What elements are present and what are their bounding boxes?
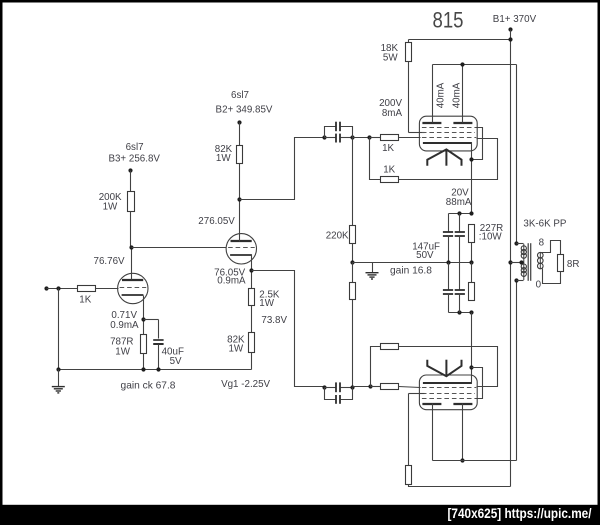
wire to 1K-a [370, 137, 381, 139]
svg-text:73.8V: 73.8V [261, 315, 287, 326]
wire V2 anode node to top coupling cap [240, 138, 324, 200]
tube U2 anode bar left [422, 403, 441, 405]
node lower cap left [322, 385, 326, 389]
capacitor 147uF-c bottom plate [443, 293, 453, 295]
svg-text:220K: 220K [326, 231, 349, 242]
capacitor C2a plate right [339, 382, 341, 392]
svg-text:8R: 8R [567, 259, 580, 270]
node top cap right [350, 135, 354, 139]
svg-text:1W: 1W [103, 202, 118, 213]
wire lower cap to 1K junction [353, 386, 371, 388]
svg-text:50V: 50V [416, 250, 434, 261]
wire 1K-b branch [370, 138, 381, 180]
transformer OPT secondary winding spine [539, 253, 541, 269]
wire mid ground stub [372, 263, 374, 273]
node top 1K junction [367, 135, 371, 139]
wire anode tie up to OPT bottom [516, 281, 518, 461]
node V1 cathode junction [141, 317, 145, 321]
wire B3+ to 200K [130, 171, 132, 192]
resistor 18K screen feed top [406, 43, 412, 62]
node B2+ terminal [237, 120, 241, 124]
wire to 1K-c [371, 386, 381, 388]
wire V1 anode to V2 grid [132, 247, 227, 249]
capacitor C2b plate right [339, 395, 341, 404]
resistor 1K grid stopper V1 [78, 286, 96, 292]
wire top cap to 1K junction [353, 137, 370, 139]
wire 787R bottom lead [143, 354, 145, 370]
node 787R rail junction [141, 367, 145, 371]
node mid rail cap junction [446, 260, 450, 264]
transformer OPT secondary winding [538, 252, 544, 268]
resistor 787R cathode V1 [141, 335, 147, 354]
wire U2 anode tie [433, 460, 517, 462]
wire 18K top stub [408, 40, 410, 43]
wire V2 cathode lead down [251, 255, 253, 289]
resistor 220K grid leak top [350, 226, 356, 244]
wire 2.5K to 82K [251, 306, 253, 333]
node lower 1K junction [368, 384, 372, 388]
svg-text:B2+ 349.85V: B2+ 349.85V [216, 104, 273, 115]
node OPT center tap junction on B1+ rail [508, 260, 512, 264]
wire cathode block top [449, 213, 472, 215]
node U1 cathode beam junction [469, 157, 473, 161]
wire block lower mid branch [459, 263, 461, 290]
tube U1 815 envelope [419, 116, 477, 151]
wire 1K-c to tube grid [399, 387, 421, 388]
svg-text:5V: 5V [170, 356, 182, 367]
node V2 anode junction [237, 197, 241, 201]
ground symbol mid [366, 273, 379, 279]
svg-text:276.05V: 276.05V [198, 216, 235, 227]
wire 8R bottom to secondary bottom [543, 269, 561, 284]
wire 82K down to ground rail [251, 353, 253, 370]
svg-text:88mA: 88mA [446, 197, 472, 208]
wire 1K-d branch [371, 347, 381, 387]
svg-text:1K: 1K [79, 295, 91, 306]
tube U1 screen grid dashed row [422, 132, 475, 134]
capacitor 147uF-d bottom plate [455, 293, 465, 295]
wire V1 anode lead up [131, 248, 133, 280]
svg-text:0: 0 [536, 279, 542, 290]
wire U1 cathode drop [471, 143, 473, 214]
node block top right [469, 211, 473, 215]
node top cap left [322, 135, 326, 139]
svg-text:40mA: 40mA [436, 82, 447, 108]
wire top cap left stub [325, 137, 336, 139]
wire U2 anode lead right [462, 404, 464, 461]
wire block left branch bottom [448, 236, 450, 263]
svg-text:gain 16.8: gain 16.8 [390, 266, 432, 277]
node input junction [56, 286, 60, 290]
wire block lower left branch [448, 263, 450, 290]
wire 1K-b long rail to right grid entry [399, 139, 498, 180]
node block top mid [457, 211, 461, 215]
node U1 anode tie junction [460, 62, 464, 66]
wire block bottom [449, 312, 472, 314]
tube U1 anode bar left [422, 122, 441, 124]
capacitor 40uF plate bottom [153, 343, 163, 345]
transformer OPT primary winding spine [523, 244, 525, 280]
wire U1 anode lead right [462, 65, 464, 123]
wire top cap node down to 220K [352, 138, 354, 226]
capacitor 147uF-a bottom plate [443, 235, 453, 237]
wire 200K to V1 anode node [130, 212, 132, 248]
resistor 220K grid leak bottom [350, 283, 356, 300]
svg-text:8: 8 [539, 237, 545, 248]
wire V2 cathode to lower coupling cap [252, 271, 325, 387]
svg-text:1K: 1K [383, 165, 395, 176]
wire 40uF bottom lead [158, 345, 160, 370]
node mid rail right [469, 260, 473, 264]
tube U2 anode bar right [453, 403, 472, 405]
svg-text:gain ck 67.8: gain ck 67.8 [121, 381, 176, 392]
wire input to grid network [47, 288, 78, 290]
svg-text:B3+ 256.8V: B3+ 256.8V [108, 153, 160, 164]
tube V1 grid dashed line [120, 287, 147, 289]
wire block mid branch top [459, 214, 461, 232]
node B1+ 18K junction [508, 37, 512, 41]
wire 1K-a to tube grid [399, 137, 421, 139]
capacitor C1b plate right [339, 122, 341, 132]
transformer OPT core [528, 243, 531, 281]
resistor 1K grid stopper c [381, 384, 399, 390]
wire B2+ to 82K plate [239, 123, 241, 146]
wire V2 anode lead up [239, 200, 241, 242]
wire secondary top to 8R [541, 241, 561, 255]
wire block left branch top [448, 214, 450, 232]
svg-text:1W: 1W [259, 298, 274, 309]
wire U2 beam row to cathode loop [472, 368, 483, 399]
wire ground rail [59, 369, 252, 371]
wire top cap parallel branch left [325, 127, 336, 138]
tube V1 anode plate bar [122, 279, 143, 281]
resistor 18K screen feed bottom [406, 466, 412, 485]
node block bottom mid [457, 310, 461, 314]
wire lower cap parallel branch left [325, 388, 336, 400]
node ground rail junction left [56, 367, 60, 371]
wire screen row down to 18K bottom [408, 394, 410, 466]
svg-text:0.9mA: 0.9mA [110, 320, 139, 331]
wire U1 beam row to cathode loop [472, 128, 483, 160]
wire top cap parallel branch right [341, 127, 353, 138]
resistor 82K cathode V2 [249, 333, 255, 353]
svg-text:6sl7: 6sl7 [126, 142, 144, 153]
wire U1 anode tie [433, 64, 517, 66]
svg-text:0.9mA: 0.9mA [217, 276, 246, 287]
wire cathode junction to bypass cap [144, 319, 159, 321]
node lower cap right [350, 385, 354, 389]
wire 1K to V1 grid [96, 288, 119, 290]
node 40uF rail junction [156, 367, 160, 371]
tube V2 cathode bar [230, 254, 252, 256]
wire B1+ rail down [510, 30, 512, 487]
wire block mid branch bottom [459, 236, 461, 263]
node input terminal [44, 286, 48, 290]
tube U1 beam former symbol [427, 149, 461, 165]
capacitor C1a plate right [339, 134, 341, 143]
tube U2 screen grid dashed row [422, 393, 475, 395]
node mid rail left [350, 260, 354, 264]
capacitor 147uF-b top plate [455, 231, 465, 233]
node OPT primary top [514, 241, 518, 245]
capacitor C2b plate left [335, 395, 337, 404]
wire U1 anode lead left [432, 65, 434, 123]
wire 82K to V2 anode node [239, 164, 241, 200]
wire mid rail [353, 262, 472, 264]
node U2 anode tie junction [460, 458, 464, 462]
tube U2 control grid dashed row [422, 387, 476, 389]
wire lower cathode rail [471, 313, 473, 383]
wire 220K bottom to lower cap node [352, 300, 354, 387]
wire block lower mid branch bottom [459, 294, 461, 313]
tube U2 815 envelope [419, 375, 477, 410]
svg-text:B1+ 370V: B1+ 370V [493, 14, 537, 25]
resistor 200K plate load V1 [128, 192, 135, 212]
wire 1K-d long rail to right grid entry [399, 347, 498, 387]
svg-text:Vg1 -2.25V: Vg1 -2.25V [221, 379, 270, 390]
resistor 82K plate load V2 [237, 146, 243, 164]
wire OPT primary top stub [517, 243, 524, 245]
tube V2 6sl7 triode envelope [226, 234, 256, 264]
wire bypass cap top lead [158, 320, 160, 339]
svg-text:[740x625] https://upic.me/: [740x625] https://upic.me/ [448, 506, 592, 522]
ground symbol main [52, 387, 65, 393]
node block bottom right [469, 310, 473, 314]
resistor 8R load [558, 255, 564, 272]
tube U1 beam plate dashed row [422, 127, 476, 129]
resistor 1K grid stopper a [381, 135, 399, 141]
node B3+ terminal [128, 168, 132, 172]
node U2 cathode beam junction [469, 365, 473, 369]
svg-text:6sl7: 6sl7 [231, 90, 249, 101]
tube U2 beam former symbol [427, 360, 461, 377]
tube U2 cathode bar [423, 382, 472, 384]
tube V1 6sl7 triode envelope [118, 273, 148, 303]
svg-text:1W: 1W [228, 344, 243, 355]
capacitor 147uF-c top plate [443, 289, 453, 291]
wire 220K bottom section [352, 263, 354, 283]
svg-text:815: 815 [433, 7, 464, 32]
wire 227R to mid rail [471, 243, 473, 263]
svg-text:40mA: 40mA [452, 82, 463, 108]
wire top cap right stub [341, 137, 353, 139]
wire U2 screen feed into tube [409, 393, 425, 395]
wire OPT primary bottom stub [517, 280, 524, 282]
node OPT center tap [519, 260, 523, 264]
resistor 1K grid stopper b [381, 177, 399, 183]
node V2 cathode junction [249, 268, 253, 272]
capacitor C1b plate left [335, 122, 337, 132]
wire ground stub [58, 370, 60, 387]
wire 18K top feed [409, 39, 511, 41]
svg-text:3K-6K PP: 3K-6K PP [523, 219, 566, 230]
wire lower cap left stub [325, 387, 336, 389]
wire anode tie down to OPT top [516, 65, 518, 244]
wire lower cap right stub [341, 387, 353, 389]
node OPT primary bottom [514, 278, 518, 282]
resistor 227R top [469, 225, 475, 243]
svg-text:5W: 5W [383, 53, 398, 64]
node B1+ terminal [508, 27, 512, 31]
tube V2 grid dashed line [228, 247, 255, 249]
transformer OPT primary winding lower [521, 264, 526, 276]
capacitor C1a plate left [335, 134, 337, 143]
svg-text:1K: 1K [382, 143, 394, 154]
resistor 1K grid stopper d [381, 344, 399, 350]
svg-text:8mA: 8mA [382, 108, 403, 119]
wire 18K down to screen row [408, 62, 410, 133]
tube V2 anode plate bar [231, 240, 252, 242]
wire 227R bottom to mid rail [471, 263, 473, 283]
transformer OPT primary winding upper [521, 246, 526, 258]
capacitor 147uF-d top plate [455, 289, 465, 291]
resistor 2.5K cathode V2 [249, 289, 255, 306]
resistor 227R bottom [469, 283, 475, 301]
svg-text:1W: 1W [115, 346, 130, 357]
capacitor C2a plate left [335, 382, 337, 392]
wire 220K to mid rail [352, 244, 354, 263]
wire U2 anode lead left [432, 404, 434, 461]
tube U1 cathode bar [423, 142, 472, 144]
tube U1 anode bar right [453, 122, 472, 124]
capacitor 40uF plate top [153, 339, 163, 341]
tube U2 beam plate dashed row [422, 398, 476, 400]
wire V1 cathode lead down [143, 296, 145, 335]
svg-text:1W: 1W [216, 153, 231, 164]
wire lower cap parallel branch right [341, 388, 353, 400]
node V1 anode / V2 grid junction [129, 245, 133, 249]
capacitor 147uF-b bottom plate [455, 235, 465, 237]
wire OPT center tap [511, 262, 522, 264]
tube V1 cathode bar [122, 294, 144, 296]
capacitor 147uF-a top plate [443, 231, 453, 233]
svg-text:76.76V: 76.76V [94, 256, 126, 267]
wire 18K bottom to B1+ rail [409, 485, 511, 487]
wire screen feed into tube [409, 132, 425, 134]
wire block lower left branch bottom [448, 294, 450, 313]
tube U1 control grid dashed row [422, 137, 476, 139]
wire input junction down to ground rail [58, 289, 60, 370]
svg-text::10W: :10W [479, 231, 503, 242]
